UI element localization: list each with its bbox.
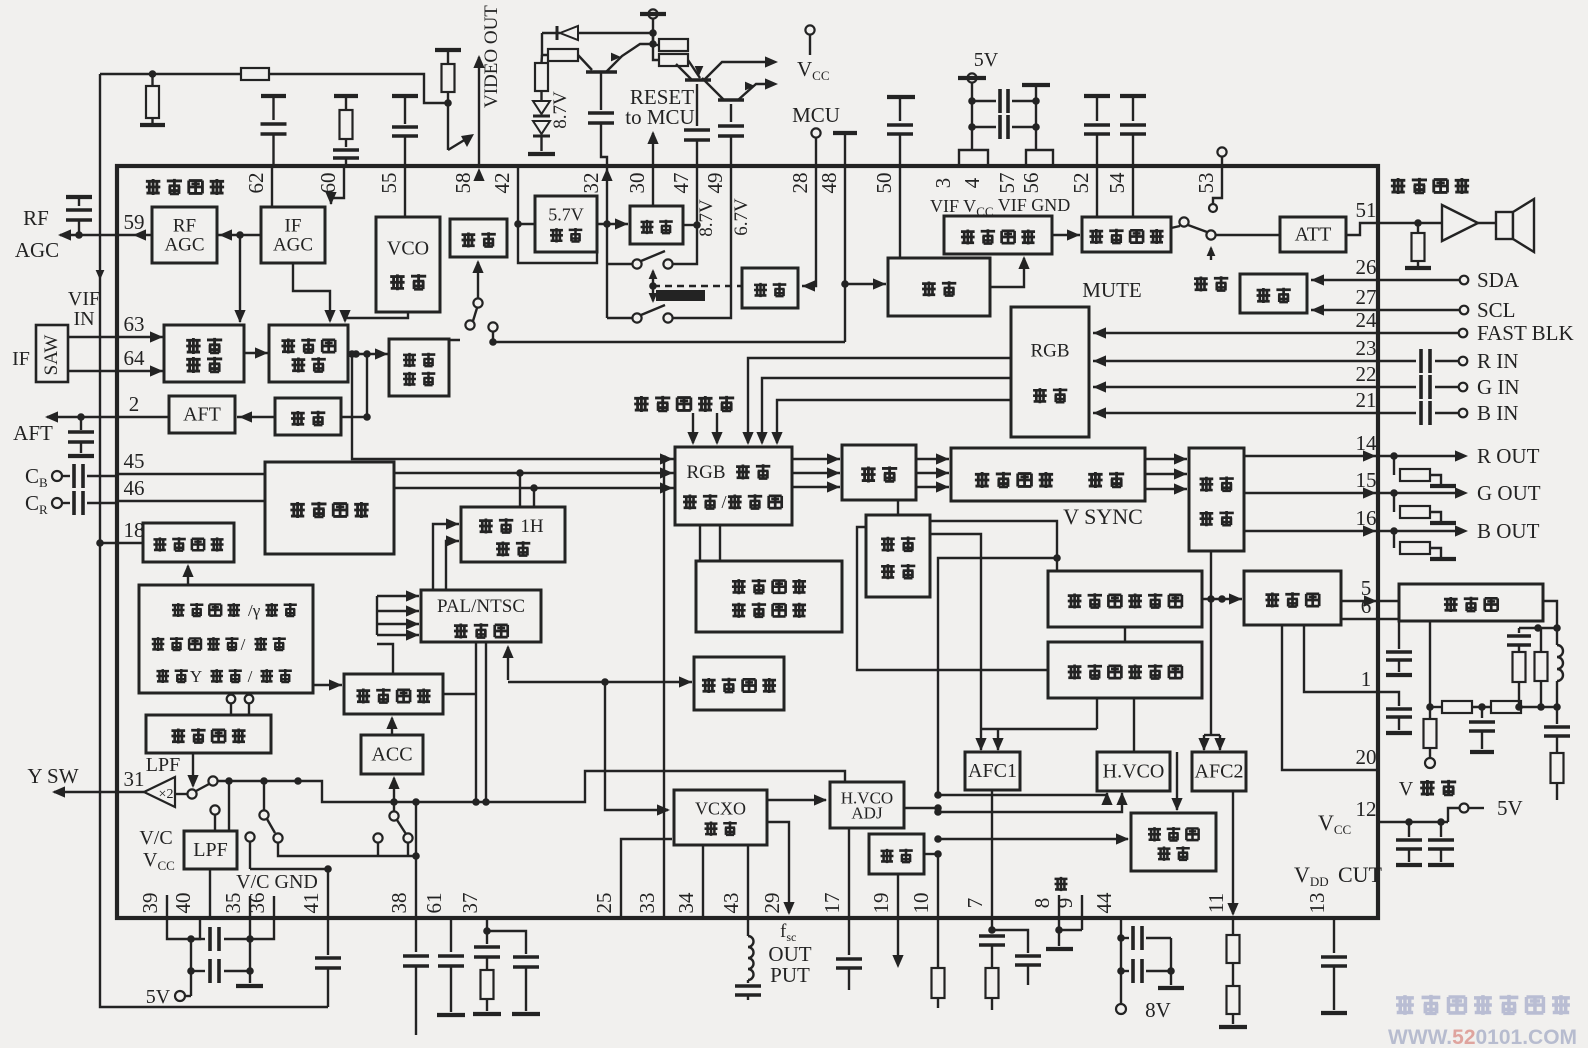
block video noise/gamma <box>139 585 313 693</box>
svg-text:20: 20 <box>1356 745 1377 769</box>
capacitor C16 + resistor R13 (pin 37) <box>474 947 500 957</box>
svg-text:×2: ×2 <box>159 787 174 802</box>
wire: PAL/NTSC to baseband delay 2 <box>446 541 459 590</box>
wire: R OUT output <box>1244 455 1378 457</box>
wire: pin 26 SDA <box>1378 279 1459 281</box>
wire: pin 37 node <box>486 918 488 944</box>
wire: switch to ATT <box>1216 234 1280 236</box>
svg-text:56: 56 <box>1019 173 1043 194</box>
capacitor C11 (5V filter upper) <box>191 938 205 940</box>
svg-text:26: 26 <box>1356 255 1377 279</box>
label switch (kaiguan) <box>1194 276 1208 291</box>
svg-text:AGC: AGC <box>15 238 59 262</box>
svg-text:ATT: ATT <box>1295 224 1332 246</box>
capacitor C17 (pin 37 right branch) <box>487 931 526 954</box>
svg-text:13: 13 <box>1305 893 1329 914</box>
terminal 5V (top) <box>967 73 976 82</box>
svg-text:46: 46 <box>124 476 145 500</box>
svg-text:15: 15 <box>1356 468 1377 492</box>
wire: pin 19 column <box>897 874 899 918</box>
block IF AGC <box>261 207 325 263</box>
terminal 5V (pin 12) <box>1460 804 1469 813</box>
wire: pin 36 stub <box>273 896 275 918</box>
wire: B OUT output <box>1244 530 1378 532</box>
transistor Q1 <box>586 70 617 74</box>
capacitor C21 (pin 7 right) <box>992 930 1028 953</box>
svg-text:35: 35 <box>221 893 245 914</box>
svg-text:21: 21 <box>1356 388 1377 412</box>
svg-text:28: 28 <box>788 173 812 194</box>
capacitor C13 (pin 41) <box>327 918 329 955</box>
switch S4 (audio mute) <box>1171 226 1180 228</box>
wire: bracket pins 57,56 <box>1026 150 1053 166</box>
block 5.7V detect <box>535 196 597 252</box>
wire: S6 to pin38 column <box>278 843 416 856</box>
wire: field output right loop <box>1543 601 1557 628</box>
wire: IF amp to PLL demod <box>244 352 269 354</box>
amplifier A1 (audio) <box>1442 205 1478 241</box>
svg-text:25: 25 <box>592 893 616 914</box>
arrow pair on switch link <box>652 271 654 301</box>
wire: G OUT output <box>1244 492 1378 494</box>
wire: pin 28 to control <box>802 166 816 286</box>
block drive amp / cutoff <box>951 448 1145 501</box>
svg-text:8: 8 <box>1030 898 1054 909</box>
svg-text:LPF: LPF <box>146 754 180 776</box>
diode D2 (vertical) <box>540 91 542 101</box>
wire: switch loop left vertical <box>606 264 608 318</box>
pin 50 external capacitor <box>887 95 915 99</box>
label video block line2 <box>152 637 165 651</box>
switch S3 (audio out select) <box>473 298 482 307</box>
wire: control dashed link <box>653 285 742 287</box>
wire: drive amp to sync sep <box>897 501 899 515</box>
capacitor C8 (mid) <box>1481 707 1483 718</box>
wire: into limiter <box>845 283 886 285</box>
svg-text:22: 22 <box>1356 362 1377 386</box>
wire: SAW to pin 64 <box>68 370 164 372</box>
resistor R5,R6 (stacked pair) <box>653 44 659 46</box>
svg-text:60: 60 <box>316 173 340 194</box>
ground (pin 36 cluster) <box>236 984 263 988</box>
svg-text:37: 37 <box>458 893 482 914</box>
wire: pin 39 stub <box>166 895 168 918</box>
capacitor C12 (5V filter lower) <box>191 970 205 972</box>
wire: pin 42 to 5.7V detect <box>518 166 535 224</box>
wire: reset to switch loop <box>683 224 697 226</box>
wire: pin 20 internal <box>1282 625 1378 770</box>
wire: pin 24 FAST BLK <box>1378 332 1458 334</box>
svg-text:ADJ: ADJ <box>851 804 883 823</box>
block output <box>450 219 507 257</box>
wire: sync sep to AFC1 column <box>930 534 981 729</box>
wire: RGB matrix to system detect 1 <box>699 525 701 561</box>
svg-text:RF: RF <box>23 206 49 230</box>
wire: reset box top to pin 30 <box>652 166 654 206</box>
svg-text:to MCU: to MCU <box>625 105 694 129</box>
block ACC <box>361 735 423 774</box>
wire: pin 48 internal column <box>844 166 846 342</box>
svg-text:AFT: AFT <box>13 421 53 445</box>
wire: sync sep left loop to horizontal counter <box>857 527 1048 670</box>
terminal 8V <box>1116 1004 1126 1014</box>
svg-text:VCXO: VCXO <box>695 798 746 818</box>
wire: AFC1 feeds <box>981 728 1097 730</box>
svg-text:FAST BLK: FAST BLK <box>1477 321 1574 345</box>
diode D3 (vertical) <box>533 121 550 134</box>
svg-text:9: 9 <box>1053 898 1077 909</box>
svg-text:AGC: AGC <box>273 234 313 255</box>
arrow: mute switch actuator <box>1210 248 1212 260</box>
block control <box>742 268 798 308</box>
wire: pin 19 down arrow <box>897 918 899 962</box>
wire: bandpass to PAL/NTSC riser <box>377 644 393 674</box>
svg-text:45: 45 <box>124 449 145 473</box>
wire: pin 18 smart monitor <box>100 542 143 544</box>
label white/blue background (cjk) <box>634 396 648 412</box>
block sound trap <box>389 339 449 396</box>
wire: AFC2 to pin 11 <box>1232 791 1234 914</box>
svg-text:IN: IN <box>73 308 94 330</box>
svg-text:VIF: VIF <box>68 288 100 310</box>
wire: supply node column <box>652 18 654 44</box>
pin 62 external capacitor chain <box>261 94 286 98</box>
wire: AFC1 to pin 7 <box>991 790 993 918</box>
svg-text:41: 41 <box>299 893 323 914</box>
wire: video tap down to detector line <box>366 354 368 417</box>
pin 55 external capacitor chain <box>392 94 418 98</box>
svg-text:43: 43 <box>719 893 743 914</box>
svg-text:G IN: G IN <box>1477 375 1520 399</box>
svg-text:/: / <box>248 667 253 686</box>
resistor R11 <box>1551 753 1564 783</box>
svg-text:R IN: R IN <box>1477 349 1518 373</box>
wire: pin 34 column <box>702 845 704 918</box>
wire: detector output <box>341 416 367 418</box>
block chroma bandpass <box>344 674 443 714</box>
label drive amp <box>975 472 989 488</box>
switch S5 lever <box>196 784 209 791</box>
wire: pin 32 column with up arrow <box>606 166 608 264</box>
block detector <box>275 398 341 435</box>
resistor R10b (parallel) <box>1540 628 1542 652</box>
capacitor C2 (pin 47) <box>696 84 698 126</box>
svg-text:14: 14 <box>1356 431 1378 455</box>
svg-text:5V: 5V <box>974 49 999 71</box>
wire: pin 38 column <box>415 802 417 918</box>
transistor Q2 <box>685 78 711 82</box>
wire: sound trap to switch <box>449 340 460 352</box>
label ground (cjk) <box>1055 877 1068 891</box>
block reset <box>630 206 683 244</box>
block brightness <box>842 445 916 500</box>
resistor load G OUT <box>1393 493 1395 512</box>
svg-text:Y: Y <box>190 667 202 686</box>
wire: pins 52,54 into audio amp <box>1096 166 1098 217</box>
wire: G IN with coupling capacitor <box>1378 386 1416 388</box>
svg-text:V: V <box>1399 778 1414 800</box>
block H.VCO <box>1097 752 1170 791</box>
block VCO adjust <box>376 217 440 312</box>
wire: detector to AFT <box>237 416 275 418</box>
svg-text:49: 49 <box>703 173 727 194</box>
terminal 5V (bottom) <box>175 991 185 1001</box>
svg-text:R OUT: R OUT <box>1477 444 1540 468</box>
terminal V blank <box>1425 758 1435 768</box>
wire: RGB input R line to matrix <box>748 358 1011 443</box>
capacitor C3 (pin 49) <box>730 104 732 122</box>
resistor R12 (V blank) <box>1429 707 1431 719</box>
svg-text:B IN: B IN <box>1477 401 1518 425</box>
pin 60 external resistor+capacitor chain <box>334 94 358 98</box>
wire: video box to smart monitor arrow <box>187 566 189 585</box>
block field amplifier <box>1244 571 1341 625</box>
svg-text:29: 29 <box>760 893 784 914</box>
wire: pin 50 into limiter top <box>899 166 901 258</box>
wire: PAL/NTSC bottom to filter adjust <box>507 647 509 680</box>
wire: RGB input G line to matrix <box>762 378 1011 443</box>
wire: down to resistor row <box>542 33 548 55</box>
capacitor C5 (VIF decoupling lower) <box>972 126 996 128</box>
wire: pin 44 column <box>1120 918 1122 1004</box>
wire: left feedback drop / bottom return to pin 41 <box>100 74 328 1007</box>
wire: ACC feed <box>393 778 395 802</box>
block AFC1 <box>965 752 1020 790</box>
svg-text:/γ: /γ <box>248 601 261 620</box>
wire: B IN with coupling capacitor <box>1378 412 1416 414</box>
resistor R4 (vertical, 8.7V branch) <box>540 55 543 63</box>
pin 58 external resistor chain + switch arrow <box>435 48 461 52</box>
pins 52,54 external capacitors <box>1084 94 1110 98</box>
wire: pin 53 to switch <box>1213 166 1222 203</box>
block phase inverter <box>869 834 924 874</box>
svg-text:8.7V: 8.7V <box>550 91 571 129</box>
inductor L1 <box>1556 628 1558 645</box>
transistor Q3 <box>718 98 744 102</box>
wire: drive amp to blanking x3 <box>1145 458 1187 460</box>
svg-text:50: 50 <box>872 173 896 194</box>
svg-text:SDA: SDA <box>1477 268 1520 292</box>
wire: pin 33 column (video tap) <box>663 459 665 918</box>
wire: 5V column <box>971 83 973 150</box>
svg-text:63: 63 <box>124 312 145 336</box>
terminal V/C GND <box>245 832 254 841</box>
svg-text:23: 23 <box>1356 336 1377 360</box>
svg-text:19: 19 <box>869 893 893 914</box>
label video block line3 <box>156 669 169 683</box>
wire: pin 29 from VCXO <box>767 822 789 913</box>
wire: pin 60 into IF AGC <box>331 166 344 204</box>
wire: pin 31 Y SW out <box>54 791 144 793</box>
capacitor C25 (Vcc decoupling 1) <box>1408 822 1410 837</box>
svg-text:64: 64 <box>124 346 146 370</box>
wire: ACC to bandpass <box>391 718 393 735</box>
wire: VCXO out to H.VCO ADJ <box>767 799 826 801</box>
svg-text:RGB: RGB <box>1030 340 1069 361</box>
inductor L2 (pin 43) <box>747 918 749 936</box>
wire: component in C_B <box>52 471 62 481</box>
label delay adjust (top-left, cjk) <box>146 179 160 195</box>
wire: SAW to pin 63 <box>68 336 164 338</box>
svg-text:5V: 5V <box>146 986 171 1008</box>
wire: bracket pins 3,4 <box>959 150 988 166</box>
wire: VIF IN drop marks <box>96 270 105 280</box>
svg-text:11: 11 <box>1204 893 1228 913</box>
svg-text:12: 12 <box>1356 797 1377 821</box>
block AFT <box>169 396 235 433</box>
svg-text:3: 3 <box>931 178 955 189</box>
wire: RGB matrix to brightness x3 <box>792 458 840 460</box>
wire: pin 44 right column + ground <box>1170 938 1172 985</box>
wire: pin 12 external <box>1378 821 1448 823</box>
svg-text:Y SW: Y SW <box>27 764 78 788</box>
wire: pin 46 into component processor <box>117 500 265 502</box>
terminals under video box <box>227 695 236 704</box>
wire: pins 8,9 ground <box>1058 918 1060 930</box>
wire: sync sep to vertical counter <box>930 521 1057 571</box>
resistor R3 (horizontal, base of Q1) <box>548 49 578 61</box>
block audio amplifier <box>1082 217 1171 252</box>
block AFC2 <box>1192 752 1246 791</box>
wire: ATT to pin 51 speaker line <box>1346 223 1442 235</box>
terminal on LPF top <box>210 805 219 814</box>
wire: field amp out pin 6 <box>1341 618 1378 620</box>
wire: RGB input B line to matrix <box>777 400 1011 443</box>
svg-text:B OUT: B OUT <box>1477 519 1540 543</box>
block LPF <box>184 831 237 869</box>
wire: brightness to drive amp x3 <box>916 458 949 460</box>
pin 30 reset output arrow <box>652 133 654 166</box>
svg-text:6.7V: 6.7V <box>731 198 752 236</box>
block limiter <box>888 258 990 316</box>
svg-text:18: 18 <box>124 518 145 542</box>
wire: pin 10 column <box>937 854 939 918</box>
svg-text:VCO: VCO <box>387 238 429 260</box>
resistor R16,R17 (pin 11) <box>1232 918 1234 935</box>
block bus interface <box>1240 274 1307 313</box>
block baseband 1H delay <box>461 507 565 562</box>
wire: phase invert link <box>924 853 938 855</box>
wire: pin 17 column <box>848 828 850 918</box>
wire: filter node to VCXO input 1 <box>605 682 668 810</box>
wire: pin 35 stub <box>249 896 251 918</box>
svg-text:31: 31 <box>124 767 145 791</box>
capacitor C9 (electrolytic) + resistor R10 column <box>1519 627 1557 629</box>
svg-text:/: / <box>241 635 246 654</box>
wire: VCO adj to PLL <box>345 312 408 321</box>
svg-text:17: 17 <box>820 893 844 914</box>
wire: pin 59 RF AGC output <box>60 234 152 236</box>
wire: rail to LPF box <box>228 781 230 831</box>
svg-text:ACC: ACC <box>371 744 412 766</box>
wire: AFC2 feed arrows <box>1204 734 1220 736</box>
svg-text:40: 40 <box>171 893 195 914</box>
svg-text:/: / <box>721 492 726 512</box>
switch S1 (upper) <box>607 263 632 265</box>
shield bar (solid) <box>656 290 705 301</box>
svg-text:PUT: PUT <box>770 963 810 987</box>
block smart monitor <box>143 523 234 562</box>
svg-text:VIF GND: VIF GND <box>998 195 1071 215</box>
wire: component out 2 <box>394 487 675 489</box>
wire: background arrows <box>692 413 694 443</box>
capacitor C19 (pin 17) <box>848 918 850 955</box>
wire: 5.7V detect to reset <box>597 223 628 225</box>
svg-text:1H: 1H <box>520 516 544 537</box>
svg-text:34: 34 <box>674 892 698 914</box>
wire: pins 35/36 bracket <box>250 918 274 939</box>
wire: pin 7 node <box>991 918 993 933</box>
block PLL demod <box>269 325 348 382</box>
watermark calligraphy line <box>1396 995 1414 1015</box>
svg-text:52: 52 <box>1069 173 1093 194</box>
resistor R7 (speaker load) <box>1417 223 1419 233</box>
wire: IF AGC to RF AGC <box>217 234 261 236</box>
switch S2 (lower) <box>607 317 632 319</box>
wire: field amp out pin 5 <box>1341 600 1399 602</box>
wire: pin 1 internal <box>1304 625 1378 692</box>
wire: chroma rail from LPF switch <box>187 789 196 798</box>
wire: H.VCO bottom feeds <box>938 793 1107 795</box>
block PAL/NTSC decoder <box>421 590 541 642</box>
block IF amplifier <box>164 325 244 382</box>
pin 53 external terminal <box>1217 147 1226 156</box>
svg-text:MUTE: MUTE <box>1082 278 1142 302</box>
svg-text:16: 16 <box>1356 506 1377 530</box>
capacitor C14 (pin 38) <box>415 918 417 952</box>
block chroma notch <box>146 715 271 753</box>
block horizontal counter <box>1048 642 1202 698</box>
block sync separator <box>866 515 930 597</box>
svg-text:AFC1: AFC1 <box>968 760 1017 782</box>
svg-text:4: 4 <box>960 177 984 188</box>
pin 48 external stub <box>833 131 857 135</box>
wire: 5V cluster verticals <box>190 939 192 996</box>
wire: pin 25 column to VCXO input 2 <box>621 839 672 918</box>
svg-text:5.7V: 5.7V <box>548 205 584 225</box>
block component processor <box>265 462 394 554</box>
svg-text:58: 58 <box>451 173 475 194</box>
block coincidence detect <box>1131 813 1216 871</box>
svg-text:AFC2: AFC2 <box>1195 761 1244 783</box>
wire: vert/horiz counter connector <box>1124 627 1126 642</box>
wire: component out 1 <box>394 472 675 474</box>
wire: video box to chroma bandpass <box>313 684 342 686</box>
label sound output (cjk) <box>1391 178 1405 194</box>
label RGB matrix line2 <box>683 494 697 509</box>
wire: bandpass out to pin38 col <box>443 693 476 695</box>
resistor R1 (left vertical) <box>149 70 157 78</box>
block vertical counter <box>1048 571 1202 627</box>
resistor load R OUT <box>1393 456 1395 475</box>
svg-text:8.7V: 8.7V <box>696 199 717 237</box>
svg-text:LPF: LPF <box>193 839 227 861</box>
svg-text:2: 2 <box>129 392 140 416</box>
wire: RGB matrix to system detect 2 <box>719 525 721 561</box>
svg-text:10: 10 <box>909 893 933 914</box>
block line/field blanking <box>1189 448 1244 551</box>
svg-text:V SYNC: V SYNC <box>1063 504 1143 529</box>
block RF AGC <box>152 207 217 263</box>
diode D1 (horizontal) <box>578 32 653 34</box>
wire: PAL/NTSC inputs <box>377 595 419 597</box>
wire: VIF GND column with T-bar <box>1022 83 1050 87</box>
svg-text:54: 54 <box>1105 172 1129 194</box>
block H.VCO ADJ <box>830 782 904 828</box>
svg-text:G OUT: G OUT <box>1477 481 1541 505</box>
svg-text:42: 42 <box>490 173 514 194</box>
wire: pin 1 external cap chain <box>1378 692 1399 706</box>
